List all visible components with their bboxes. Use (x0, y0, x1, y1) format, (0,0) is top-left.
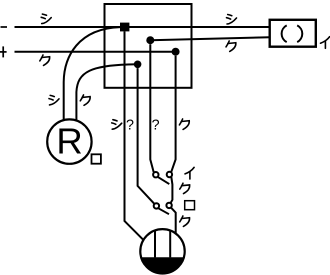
power source negative terminal label − (1, 26, 8, 28)
device label イ (switch イ) (185, 167, 194, 179)
wire: curve from receptacle R left lead (シ) up to connector square (64, 27, 120, 120)
switch イ left contact (153, 172, 158, 177)
net label ク (right, on return wire to light イ) (226, 41, 236, 51)
net label ク (hot drop to outlet) (180, 216, 190, 226)
ceiling light イ (rectangular, with ( ) ) (270, 20, 316, 47)
junction box (105, 4, 192, 88)
wire: neutral feed (−/シ) from source through junction box to ceiling light イ (15, 26, 270, 28)
device label ロ (switch ロ) (185, 201, 195, 210)
net label ク (above receptacle R right lead) (80, 95, 90, 105)
net label シ (above receptacle R left lead) (49, 95, 59, 105)
power source positive terminal label + (0, 46, 7, 57)
svg-text:R: R (56, 120, 82, 161)
switch イ right contact (167, 172, 172, 177)
wire: switched return イ from node A to ceiling light イ (150, 37, 269, 40)
net label ク (on hot drop below box) (179, 119, 189, 129)
switch イ lever (158, 177, 169, 184)
net label ク (left, on + wire) (40, 55, 50, 65)
junction node C (return of switch ロ) (134, 61, 142, 69)
switch ロ lever (158, 208, 169, 214)
connector square (terminal on − wire) (120, 23, 129, 32)
junction node B (hot ク tap) (172, 48, 180, 56)
wire: hot feed (+/ク) from source into junction box to node B (15, 51, 176, 53)
junction node A (return of switch イ) (146, 36, 154, 44)
net label シ (top right, on − wire) (227, 15, 237, 25)
device label イ (ceiling light) (321, 37, 330, 49)
switch ロ left contact (154, 203, 159, 208)
net label シ (on neutral drop below box) (112, 120, 122, 130)
wire: hot drop from node B down to switch イ common (171, 56, 175, 172)
wire: curve from receptacle R right lead (ク) up to node C (76, 64, 137, 120)
svg-text:?: ? (152, 118, 160, 134)
net label ク (jumper between switches) (180, 183, 190, 193)
switch ロ right contact (166, 203, 171, 208)
outlet (surface-mount receptacle, bottom) (140, 229, 184, 273)
svg-text:?: ? (126, 118, 134, 134)
wire: return drop from node C down to switch ロ (138, 68, 155, 204)
wire: neutral drop from connector square down to outlet (125, 31, 144, 240)
wire: hot jumper from switch イ common to switch ロ common (171, 177, 173, 203)
net label シ (top left, on − wire) (41, 14, 51, 24)
wire: return drop from node A down to switch イ (150, 44, 153, 172)
device label ロ (small square next to R) (92, 154, 101, 163)
lamp receptacle R (47, 119, 91, 163)
wire: hot continuation from switch ロ common down to outlet (171, 208, 176, 233)
